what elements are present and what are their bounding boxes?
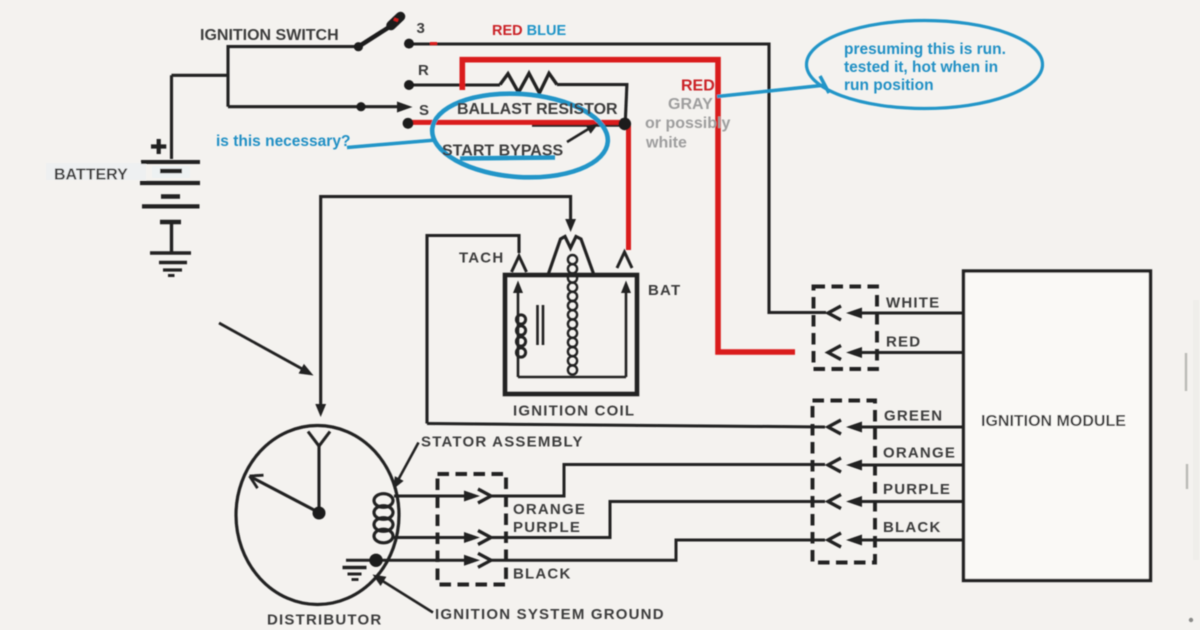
svg-text:IGNITION SYSTEM GROUND: IGNITION SYSTEM GROUND xyxy=(435,606,665,623)
svg-text:IGNITION SWITCH: IGNITION SWITCH xyxy=(200,27,339,44)
svg-text:STATOR ASSEMBLY: STATOR ASSEMBLY xyxy=(421,434,584,451)
svg-text:run position: run position xyxy=(844,77,934,94)
svg-text:R: R xyxy=(418,62,430,79)
svg-text:GREEN: GREEN xyxy=(884,408,943,425)
svg-text:S: S xyxy=(419,102,430,119)
svg-text:ORANGE: ORANGE xyxy=(883,445,956,462)
svg-text:BALLAST RESISTOR: BALLAST RESISTOR xyxy=(457,101,618,118)
svg-text:3: 3 xyxy=(417,20,427,37)
svg-text:white: white xyxy=(645,134,687,151)
svg-text:WHITE: WHITE xyxy=(886,295,940,312)
svg-text:or possibly: or possibly xyxy=(645,115,730,132)
svg-text:IGNITION COIL: IGNITION COIL xyxy=(513,402,635,419)
svg-text:PURPLE: PURPLE xyxy=(513,519,581,536)
svg-text:tested it, hot when in: tested it, hot when in xyxy=(844,59,998,76)
svg-text:BLACK: BLACK xyxy=(513,565,572,582)
svg-text:DISTRIBUTOR: DISTRIBUTOR xyxy=(267,611,382,628)
svg-text:is this necessary?: is this necessary? xyxy=(216,133,350,150)
svg-text:PURPLE: PURPLE xyxy=(883,481,951,498)
svg-text:GRAY: GRAY xyxy=(668,96,713,113)
svg-text:START BYPASS: START BYPASS xyxy=(442,143,564,160)
svg-text:BATTERY: BATTERY xyxy=(54,167,128,184)
svg-text:BAT: BAT xyxy=(648,282,681,299)
svg-text:ORANGE: ORANGE xyxy=(513,501,586,518)
svg-text:BLACK: BLACK xyxy=(883,519,942,536)
svg-text:IGNITION MODULE: IGNITION MODULE xyxy=(981,413,1126,430)
svg-text:presuming this is run.: presuming this is run. xyxy=(844,41,1006,58)
svg-text:RED BLUE: RED BLUE xyxy=(492,23,566,39)
svg-text:TACH: TACH xyxy=(459,249,504,266)
svg-text:RED: RED xyxy=(886,334,921,351)
svg-text:RED: RED xyxy=(681,78,715,95)
